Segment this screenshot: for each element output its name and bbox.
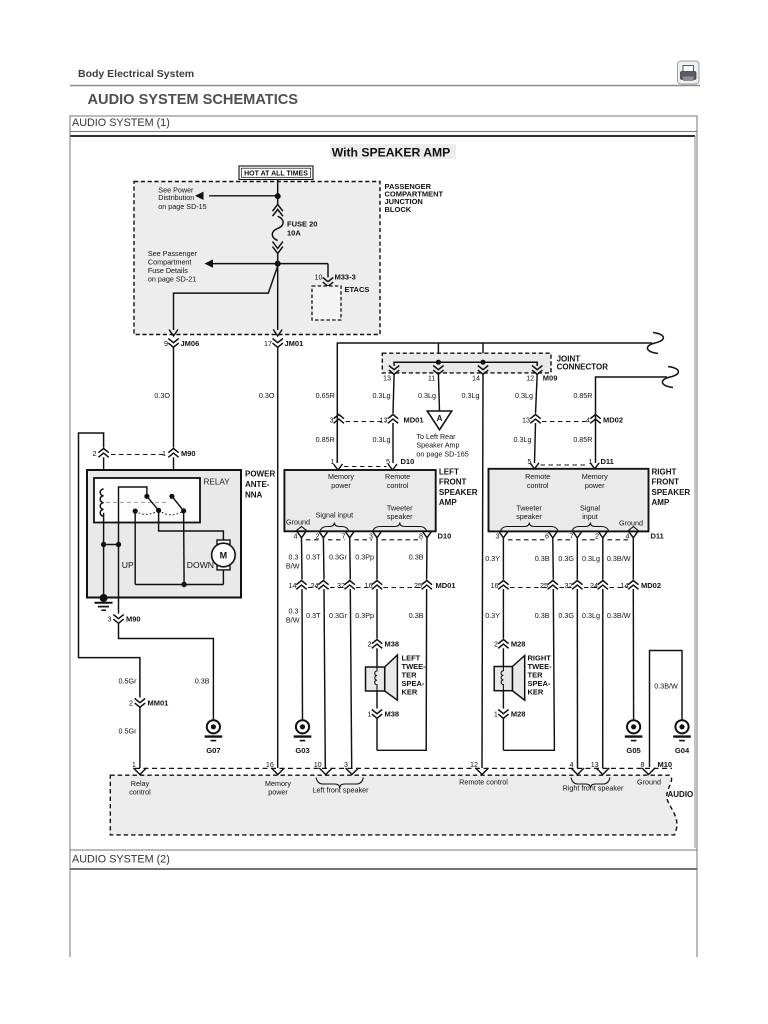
- connector 9 JM06: [168, 339, 178, 348]
- svg-text:M09: M09: [543, 373, 558, 382]
- wire M09-14 down to audio remote control: [482, 374, 483, 768]
- svg-text:M33-3: M33-3: [335, 273, 356, 282]
- svg-text:0.3Pp: 0.3Pp: [355, 611, 374, 620]
- svg-text:AUDIO SYSTEM (2): AUDIO SYSTEM (2): [72, 854, 170, 866]
- wire tweeter bottom to return: [502, 718, 504, 750]
- M09 pins 13 11 14 12: [389, 366, 399, 375]
- connector row MD02 (lower): [498, 581, 508, 590]
- svg-text:11: 11: [428, 373, 435, 382]
- note: see passenger compartment fuse details: [148, 249, 198, 283]
- svg-text:JM06: JM06: [181, 339, 200, 348]
- svg-text:16: 16: [266, 760, 274, 769]
- branch wire to JM06: [174, 266, 278, 330]
- svg-text:3: 3: [108, 615, 112, 624]
- diagram title: With SPEAKER AMP: [330, 144, 456, 159]
- wire to audio pin10: [322, 538, 325, 580]
- svg-text:10: 10: [315, 273, 323, 282]
- svg-text:FUSE 20: FUSE 20: [287, 220, 317, 229]
- fuse label: [287, 220, 317, 238]
- connector M90 pins 2 / 1: [98, 449, 108, 458]
- svg-text:16: 16: [365, 581, 373, 590]
- D11 bottom pins: [499, 531, 508, 538]
- svg-text:0.3B: 0.3B: [409, 611, 424, 620]
- svg-text:D11: D11: [651, 531, 664, 540]
- tweeter speaker brace: [500, 523, 558, 532]
- connector row MD02 (upper): [530, 415, 540, 424]
- svg-text:control: control: [387, 481, 409, 490]
- svg-text:0.3G: 0.3G: [558, 554, 574, 563]
- svg-text:M: M: [220, 551, 228, 561]
- wire fuse to node 2: [277, 253, 279, 263]
- amp name: [439, 468, 478, 508]
- audio ground loop to G04: [650, 651, 683, 768]
- svg-text:10: 10: [314, 760, 322, 769]
- ground pin bracket: [627, 527, 639, 532]
- junction dots at coil bottom: [101, 542, 106, 547]
- connector 17 JM01: [273, 339, 283, 348]
- junction node 1: [275, 193, 281, 199]
- printer icon button: [678, 61, 700, 84]
- svg-text:G03: G03: [295, 746, 309, 755]
- svg-text:4: 4: [586, 415, 590, 424]
- ground G07: [207, 720, 220, 733]
- relay switch arms: [147, 496, 159, 510]
- svg-text:0.3B: 0.3B: [409, 553, 424, 562]
- svg-text:D10: D10: [438, 531, 452, 540]
- ground G05: [627, 720, 640, 733]
- svg-text:MD02: MD02: [603, 415, 623, 424]
- svg-text:AUDIO SYSTEM SCHEMATICS: AUDIO SYSTEM SCHEMATICS: [88, 92, 299, 108]
- svg-text:14: 14: [289, 581, 297, 590]
- svg-text:on page SD-21: on page SD-21: [148, 274, 196, 283]
- svg-text:D11: D11: [601, 457, 614, 466]
- note: to left rear speaker amp: [416, 432, 468, 459]
- svg-text:12: 12: [470, 760, 478, 769]
- arrow to See Passenger Compartment: [205, 259, 278, 267]
- svg-text:13: 13: [380, 415, 388, 424]
- svg-text:16: 16: [491, 581, 499, 590]
- svg-text:AMP: AMP: [652, 498, 670, 507]
- svg-text:0.3Lg: 0.3Lg: [373, 391, 391, 400]
- left tweeter name: [402, 654, 427, 697]
- wire 0.85R to D10 pin1: [336, 423, 338, 463]
- svg-text:With SPEAKER AMP: With SPEAKER AMP: [332, 146, 451, 160]
- wire tweeter bottom to return: [376, 718, 378, 750]
- left tweeter speaker icon: [366, 655, 398, 700]
- svg-text:2: 2: [595, 531, 599, 540]
- svg-text:BLOCK: BLOCK: [385, 205, 412, 214]
- right front speaker amp box: [489, 469, 649, 532]
- relay switch contacts: [144, 494, 149, 499]
- motor M1: [212, 540, 236, 570]
- svg-text:Speaker Amp: Speaker Amp: [416, 441, 459, 450]
- amp name: [652, 468, 691, 508]
- right front speaker brace: [571, 778, 610, 789]
- wire to audio pin4: [576, 538, 578, 580]
- svg-text:8: 8: [641, 760, 645, 769]
- frame: AUDIO SYSTEM (2) strip: [70, 849, 697, 851]
- svg-text:1: 1: [162, 449, 166, 458]
- svg-text:0.3O: 0.3O: [154, 391, 170, 400]
- svg-text:SPEAKER: SPEAKER: [439, 488, 478, 497]
- relay coil: [100, 489, 103, 516]
- svg-text:input: input: [582, 512, 598, 521]
- connector 2 M28: [498, 640, 508, 649]
- svg-text:G07: G07: [206, 746, 220, 755]
- junction node 2: [275, 261, 281, 267]
- svg-text:4: 4: [570, 760, 574, 769]
- wire M90-3 to ground G07: [119, 624, 214, 721]
- joint connector M09 box: [382, 353, 551, 373]
- feed wire to right amp memory power (with continuation mark): [596, 377, 668, 463]
- svg-text:2: 2: [129, 699, 133, 708]
- wire coil bottom to ground: [103, 513, 105, 598]
- svg-text:17: 17: [264, 339, 272, 348]
- wire to right tweeter: [502, 538, 504, 580]
- connector 2 MM01: [135, 699, 145, 708]
- svg-text:0.3Gr: 0.3Gr: [329, 611, 348, 620]
- svg-text:G05: G05: [626, 746, 641, 755]
- right tweeter speaker icon: [494, 656, 525, 701]
- wire middle contact to motor top: [159, 510, 224, 540]
- exit arrow JM01: [273, 330, 282, 337]
- svg-text:12: 12: [526, 373, 534, 382]
- svg-text:RELAY: RELAY: [204, 478, 231, 487]
- dashed link M90 row: [111, 454, 166, 456]
- main wire to JM01: [277, 264, 279, 330]
- wire to audio pin13: [602, 538, 604, 580]
- D10 bottom pins: [297, 531, 306, 538]
- wire DOWN contact down: [183, 511, 186, 585]
- joint connector bus: [394, 362, 537, 366]
- svg-text:24: 24: [311, 581, 319, 590]
- svg-text:0.3Gr: 0.3Gr: [329, 553, 348, 562]
- svg-text:on page SD-15: on page SD-15: [158, 202, 206, 211]
- svg-text:NNA: NNA: [245, 491, 263, 500]
- svg-text:DOWN: DOWN: [187, 560, 214, 570]
- power antenna box: [87, 470, 241, 598]
- wire to connector 3 M90: [118, 545, 120, 614]
- continuation squiggle right top: [647, 333, 663, 354]
- svg-text:MD01: MD01: [436, 581, 456, 590]
- svg-text:7: 7: [342, 531, 346, 540]
- signal input brace: [320, 523, 349, 532]
- svg-text:0.3: 0.3: [289, 553, 299, 562]
- svg-text:G04: G04: [675, 746, 690, 755]
- arrow to See Power Distribution: [195, 192, 278, 200]
- wire to left tweeter: [376, 538, 378, 580]
- label HOT AT ALL TIMES: [239, 166, 313, 180]
- wire UP contact down: [134, 511, 136, 584]
- svg-text:14: 14: [621, 581, 629, 590]
- connector 2 M38: [372, 640, 382, 649]
- svg-text:0.3Lg: 0.3Lg: [514, 435, 532, 444]
- joint connector stubs: [437, 343, 439, 362]
- connector row MD01 (lower): [296, 581, 306, 590]
- svg-text:RIGHT: RIGHT: [652, 468, 677, 477]
- svg-text:0.3Pp: 0.3Pp: [355, 553, 374, 562]
- svg-text:2: 2: [93, 449, 97, 458]
- svg-text:0.3Lg: 0.3Lg: [462, 391, 480, 400]
- wire switch1 common loop: [119, 487, 147, 545]
- svg-text:0.3Lg: 0.3Lg: [582, 611, 600, 620]
- frame: AUDIO SYSTEM (1) box: [70, 116, 697, 869]
- svg-text:MM01: MM01: [148, 699, 169, 708]
- connector 3 M90: [113, 615, 123, 624]
- svg-text:Remote control: Remote control: [459, 778, 508, 787]
- svg-text:3: 3: [496, 531, 500, 540]
- svg-text:LEFT: LEFT: [439, 468, 459, 477]
- svg-text:10A: 10A: [287, 229, 301, 238]
- svg-text:0.3B/W: 0.3B/W: [607, 611, 631, 620]
- svg-text:2: 2: [368, 640, 372, 649]
- svg-text:4: 4: [626, 531, 630, 540]
- wire: relay control loop (audio pin 1 to M90 pin 2): [79, 433, 140, 698]
- svg-text:0.5Gr: 0.5Gr: [119, 727, 138, 736]
- svg-text:FRONT: FRONT: [652, 478, 680, 487]
- svg-text:32: 32: [337, 581, 345, 590]
- main feed wire from HOT box: [277, 180, 279, 206]
- svg-text:3: 3: [330, 415, 334, 424]
- svg-text:3: 3: [344, 760, 348, 769]
- svg-text:Signal input: Signal input: [316, 510, 354, 519]
- left front speaker brace: [316, 778, 363, 789]
- svg-text:0.3O: 0.3O: [259, 391, 275, 400]
- svg-text:0.3Lg: 0.3Lg: [373, 435, 391, 444]
- svg-text:KER: KER: [528, 688, 544, 697]
- svg-text:AUDIO SYSTEM (1): AUDIO SYSTEM (1): [72, 117, 170, 129]
- wire M90 pin2 into coil: [103, 457, 105, 489]
- wire M09-13 to D10-5: [393, 374, 394, 413]
- svg-text:power: power: [331, 481, 351, 490]
- svg-text:0.3Lg: 0.3Lg: [418, 391, 436, 400]
- svg-text:Body Electrical System: Body Electrical System: [78, 68, 194, 80]
- wire M09-12 to D11-5: [536, 374, 538, 413]
- svg-text:1: 1: [494, 710, 498, 719]
- svg-text:UP: UP: [122, 560, 134, 570]
- connector 10 M33-3: [323, 278, 333, 287]
- svg-text:4: 4: [294, 531, 298, 540]
- svg-text:1: 1: [368, 710, 372, 719]
- svg-text:KER: KER: [402, 688, 418, 697]
- svg-text:control: control: [129, 788, 151, 797]
- feed wire to left amp memory power (with continuation mark): [337, 343, 652, 463]
- svg-text:0.3B/W: 0.3B/W: [607, 554, 631, 563]
- signal input brace: [572, 523, 609, 532]
- connector 1 M38: [372, 710, 382, 719]
- svg-text:13: 13: [522, 415, 530, 424]
- svg-text:Left front speaker: Left front speaker: [313, 786, 370, 795]
- svg-text:0.3B: 0.3B: [535, 611, 550, 620]
- svg-text:25: 25: [540, 581, 548, 590]
- svg-text:M90: M90: [126, 615, 141, 624]
- svg-text:9: 9: [164, 339, 168, 348]
- svg-text:To Left Rear: To Left Rear: [416, 432, 456, 441]
- svg-text:13: 13: [383, 373, 391, 382]
- ground G04: [675, 720, 688, 733]
- svg-text:Ground: Ground: [619, 519, 643, 528]
- chassis ground under power antenna: [100, 594, 108, 602]
- svg-text:0.3Y: 0.3Y: [485, 554, 500, 563]
- svg-text:on page SD-165: on page SD-165: [416, 449, 468, 458]
- svg-text:0.85R: 0.85R: [573, 391, 592, 400]
- svg-text:B/W: B/W: [286, 616, 300, 625]
- svg-text:speaker: speaker: [387, 512, 413, 521]
- wire amp pin6 to tweeter return: [503, 538, 554, 750]
- svg-text:D10: D10: [401, 457, 415, 466]
- svg-text:MD01: MD01: [404, 415, 424, 424]
- wire MM01 to audio pin 1: [139, 708, 141, 769]
- connector row MD01 (upper): [334, 415, 344, 424]
- svg-text:0.3B/W: 0.3B/W: [654, 682, 678, 691]
- svg-text:Memory: Memory: [582, 472, 608, 481]
- svg-text:M90: M90: [181, 449, 196, 458]
- fuse F20 symbol: [272, 204, 283, 253]
- svg-text:0.3Y: 0.3Y: [485, 611, 500, 620]
- wire M90 pin1 into relay: [173, 457, 175, 496]
- svg-text:0.3Lg: 0.3Lg: [582, 554, 600, 563]
- header rule: [70, 85, 700, 87]
- svg-text:0.85R: 0.85R: [316, 435, 335, 444]
- svg-text:14: 14: [472, 373, 480, 382]
- svg-text:B/W: B/W: [286, 562, 300, 571]
- svg-text:M28: M28: [511, 640, 526, 649]
- wire JM01 down to audio memory power: [277, 347, 279, 768]
- svg-text:MD02: MD02: [641, 581, 661, 590]
- wire JM06 to M90 pin 1: [173, 347, 175, 447]
- svg-text:speaker: speaker: [516, 512, 542, 521]
- relay switch travel arcs (dotted): [135, 510, 183, 514]
- wire amp ground to G03: [301, 538, 304, 580]
- svg-text:13: 13: [591, 760, 599, 769]
- wire to audio pin3: [349, 538, 352, 580]
- svg-text:Remote: Remote: [385, 472, 410, 481]
- svg-text:0.3B: 0.3B: [535, 554, 550, 563]
- passenger compartment junction block (dashed): [134, 182, 380, 335]
- svg-text:HOT AT ALL TIMES: HOT AT ALL TIMES: [244, 170, 308, 177]
- svg-text:power: power: [585, 481, 605, 490]
- svg-text:M38: M38: [385, 640, 400, 649]
- svg-text:24: 24: [590, 581, 598, 590]
- svg-text:control: control: [527, 481, 549, 490]
- wire M09-11 to triangle A: [438, 374, 439, 411]
- ground G03: [296, 720, 309, 733]
- wire amp ground to G05: [632, 538, 634, 580]
- relay box: [94, 478, 200, 523]
- svg-text:2: 2: [316, 531, 320, 540]
- svg-text:POWER: POWER: [245, 470, 275, 479]
- wire bottom bus to motor: [135, 584, 223, 586]
- svg-text:AUDIO: AUDIO: [668, 790, 694, 799]
- connector 1 M28: [498, 710, 508, 719]
- svg-text:1: 1: [132, 760, 136, 769]
- svg-text:JM01: JM01: [285, 339, 304, 348]
- svg-text:Ground: Ground: [286, 518, 310, 527]
- svg-text:3: 3: [369, 531, 373, 540]
- right tweeter name: [528, 654, 553, 697]
- exit arrow JM06: [169, 330, 178, 337]
- triangle A off-page ref: [427, 411, 451, 430]
- svg-text:AMP: AMP: [439, 498, 457, 507]
- ground pin bracket: [296, 527, 308, 532]
- ETACS box (dashed): [312, 286, 341, 320]
- svg-text:M10: M10: [658, 760, 673, 769]
- svg-text:6: 6: [545, 531, 549, 540]
- svg-text:ANTE-: ANTE-: [245, 480, 270, 489]
- tweeter speaker brace: [373, 523, 427, 532]
- relay mechanical link (dashed): [106, 501, 168, 503]
- joint connector name: [557, 355, 609, 372]
- junction block name: [385, 182, 444, 214]
- svg-text:8: 8: [419, 531, 423, 540]
- svg-text:0.85R: 0.85R: [573, 435, 592, 444]
- wire amp pin8 to tweeter return: [377, 538, 427, 751]
- wire to ETACS connector: [278, 263, 328, 265]
- audio pins: [133, 768, 146, 775]
- svg-text:2: 2: [494, 640, 498, 649]
- note: see power distribution: [158, 186, 206, 211]
- svg-text:Ground: Ground: [637, 778, 661, 787]
- svg-text:0.3G: 0.3G: [558, 611, 574, 620]
- svg-text:7: 7: [570, 531, 574, 540]
- svg-text:power: power: [268, 788, 288, 797]
- power antenna name: [245, 470, 275, 500]
- audio unit box (dashed, torn right edge): [110, 775, 677, 835]
- audio connector pin row (dashed): [135, 767, 672, 769]
- svg-text:0.3: 0.3: [289, 607, 299, 616]
- left front speaker amp box: [284, 470, 435, 531]
- svg-text:A: A: [437, 414, 443, 423]
- svg-text:Right front speaker: Right front speaker: [563, 784, 624, 793]
- svg-text:0.3B: 0.3B: [195, 677, 210, 686]
- svg-text:M28: M28: [511, 710, 526, 719]
- svg-text:0.3T: 0.3T: [306, 553, 321, 562]
- svg-text:32: 32: [565, 581, 573, 590]
- svg-text:0.3Lg: 0.3Lg: [515, 391, 533, 400]
- svg-text:25: 25: [414, 581, 422, 590]
- svg-text:ETACS: ETACS: [345, 285, 370, 294]
- svg-text:CONNECTOR: CONNECTOR: [557, 363, 609, 372]
- svg-text:M38: M38: [385, 710, 400, 719]
- svg-text:SPEAKER: SPEAKER: [652, 488, 691, 497]
- svg-text:Remote: Remote: [525, 472, 550, 481]
- svg-text:FRONT: FRONT: [439, 478, 467, 487]
- svg-text:0.3T: 0.3T: [306, 611, 321, 620]
- svg-text:0.5Gr: 0.5Gr: [119, 677, 138, 686]
- svg-text:Memory: Memory: [328, 472, 354, 481]
- svg-text:Distribution: Distribution: [158, 193, 194, 202]
- svg-text:0.65R: 0.65R: [316, 391, 335, 400]
